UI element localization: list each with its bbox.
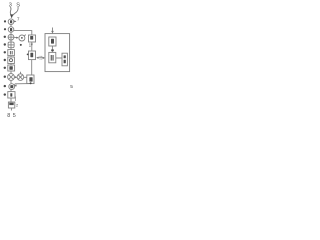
svg-text:5: 5 [70,84,73,90]
svg-text:5: 5 [13,113,16,119]
svg-text:S: S [16,2,20,8]
svg-text:8: 8 [7,113,10,119]
svg-text:3: 3 [9,2,12,8]
svg-text:2: 2 [16,104,18,108]
